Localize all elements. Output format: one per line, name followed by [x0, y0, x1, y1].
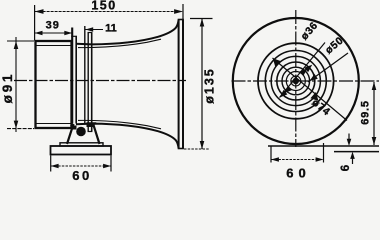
- dim 60 left line: [51, 165, 111, 167]
- dim 39 arrow left: [35, 31, 43, 36]
- bracket left lug: [70, 126, 77, 130]
- bracket right leg: [94, 125, 100, 144]
- flange ring right line: [75, 36, 77, 124]
- collar ring right line: [91, 33, 93, 132]
- leader phi36 line: [280, 43, 326, 98]
- circle r9.5: [286, 72, 305, 91]
- leader phi36 arrow SW: [284, 86, 292, 94]
- bell rim bottom cap: [178, 148, 184, 150]
- dim phi91 ext top: [7, 40, 34, 42]
- circle r37.8: [258, 43, 334, 119]
- dim 39 arrow right: [64, 31, 72, 36]
- base plate: [51, 146, 112, 155]
- driver cylinder inner edge top: [36, 45, 71, 47]
- dim phi135 line: [201, 19, 203, 150]
- dim 60 right arrow left: [271, 157, 279, 161]
- bell rim top cap: [178, 19, 184, 21]
- svg-text:6: 6: [340, 165, 352, 171]
- svg-text:60: 60: [286, 166, 310, 181]
- flange top cap: [71, 35, 77, 37]
- base plate top line: [268, 145, 379, 147]
- dim 60 right line: [271, 159, 324, 161]
- svg-text:60: 60: [72, 168, 91, 182]
- bracket left leg: [67, 124, 74, 144]
- dim 150 line: [35, 11, 183, 13]
- dim 60 left ext left: [50, 156, 52, 172]
- svg-text:150: 150: [91, 0, 116, 13]
- horn outline top: [76, 20, 179, 45]
- dim 150 ext left: [34, 5, 36, 41]
- flange ring left line: [71, 28, 73, 124]
- dim 6 arrow down: [347, 139, 352, 146]
- bell rim right line: [182, 20, 184, 149]
- collar top cap: [88, 32, 93, 34]
- throat joint line: [84, 26, 86, 125]
- base strip: [60, 143, 103, 146]
- bracket bolt: [76, 127, 86, 137]
- dim 60 right ext left: [270, 147, 272, 163]
- collar ring left line: [87, 33, 89, 132]
- leader phi50 arrow SW: [310, 74, 318, 81]
- leader phi74 line: [273, 58, 348, 121]
- hub dot: [293, 78, 299, 84]
- dim 150 arrow right: [174, 9, 183, 14]
- leader phi50 arrow inner SW: [279, 90, 287, 98]
- leader phi36 arrow NE: [300, 68, 308, 76]
- dim 60 left arrow right: [103, 164, 111, 168]
- dim phi91 arrow top: [14, 41, 19, 49]
- svg-text:69.5: 69.5: [360, 100, 372, 125]
- horn outline bottom: [76, 124, 179, 149]
- dim 6 stem bottom: [352, 159, 354, 165]
- leader phi74 arrow NW: [273, 58, 281, 67]
- dim phi91 line: [15, 37, 17, 132]
- dim 69.5 arrow top: [372, 82, 377, 90]
- bracket knuckle: [87, 122, 97, 127]
- svg-text:ø135: ø135: [203, 67, 217, 104]
- dim 150 arrow left: [35, 9, 44, 14]
- leader phi50 arrow inner NE: [304, 65, 312, 73]
- leader phi74 arrow SE: [310, 92, 318, 101]
- dim phi135 arrow bottom: [200, 141, 205, 149]
- bell rim left line: [178, 20, 180, 149]
- dim 60 left arrow left: [51, 164, 59, 168]
- dim 60 right arrow right: [316, 157, 324, 161]
- dim 60 left ext right: [110, 156, 112, 172]
- dim 39 line: [35, 32, 73, 34]
- circle r19: [277, 62, 315, 100]
- circle r5: [291, 76, 301, 86]
- svg-text:11: 11: [105, 23, 117, 35]
- dim 6 arrow up: [350, 152, 355, 159]
- base plate bottom line: [334, 151, 379, 153]
- dim phi91 ext bottom: [7, 128, 34, 130]
- dim phi135 arrow top: [200, 19, 205, 27]
- svg-text:ø91: ø91: [0, 72, 15, 104]
- centerline horizontal right view: [232, 80, 380, 82]
- svg-text:39: 39: [46, 20, 60, 32]
- centerline horizontal left view: [14, 80, 186, 82]
- dim phi135 bottom ref dotted: [184, 148, 210, 150]
- circle r13.8: [282, 67, 310, 95]
- centerline vertical right view: [295, 10, 297, 147]
- outer circle phi135: [233, 18, 359, 144]
- dim 69.5 line: [373, 82, 375, 145]
- driver cylinder body: [36, 41, 72, 128]
- dim 11 line: [85, 29, 103, 31]
- dim phi91 arrow bottom: [14, 121, 19, 129]
- circle r24.6: [271, 56, 320, 105]
- dim 150 ext right: [182, 4, 184, 19]
- circle r30.5: [265, 51, 326, 112]
- dim 69.5 arrow bottom: [372, 137, 377, 145]
- dim 11 arrow: [85, 27, 93, 31]
- driver cylinder inner edge bottom: [36, 123, 71, 125]
- dim 60 right ext right: [323, 143, 325, 163]
- dim 6 stem top: [348, 134, 350, 140]
- leader phi50 line: [308, 53, 348, 82]
- horn inner wall bottom: [78, 120, 161, 128]
- collar bottom cap: [88, 131, 93, 133]
- horn inner wall top: [78, 39, 161, 47]
- dim phi135 ext top: [190, 18, 213, 20]
